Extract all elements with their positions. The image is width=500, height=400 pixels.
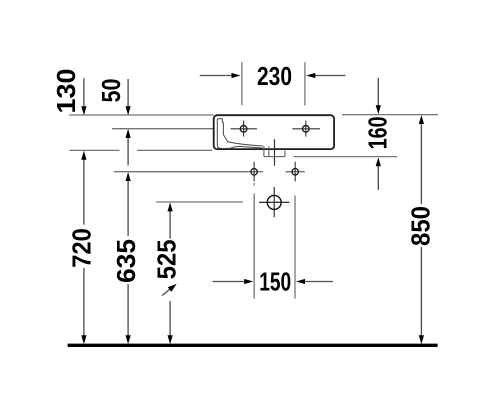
svg-text:230: 230 <box>257 63 292 91</box>
svg-text:150: 150 <box>259 269 291 297</box>
svg-text:635: 635 <box>113 239 141 283</box>
svg-text:130: 130 <box>53 69 81 114</box>
svg-text:720: 720 <box>69 228 97 268</box>
svg-text:160: 160 <box>365 116 393 149</box>
svg-text:50: 50 <box>98 79 126 103</box>
svg-text:525: 525 <box>154 239 182 279</box>
svg-text:850: 850 <box>408 206 436 246</box>
